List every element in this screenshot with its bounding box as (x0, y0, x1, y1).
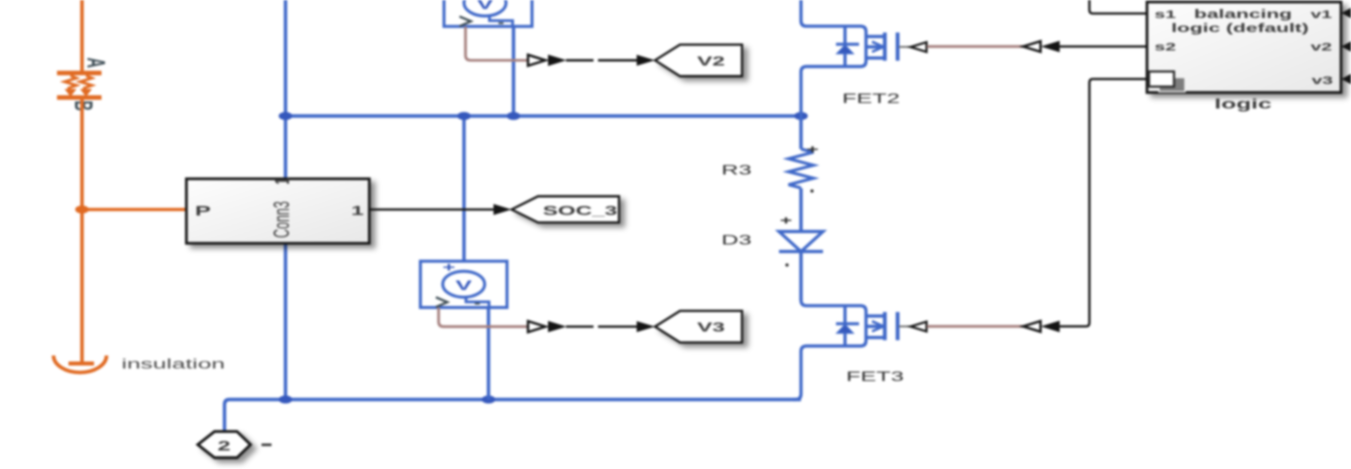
svg-text:v2: v2 (1311, 41, 1333, 53)
transistor FET2 (801, 0, 898, 116)
FET2 gate PS port triangle (911, 42, 927, 52)
svg-text:SOC_3: SOC_3 (543, 203, 618, 218)
svg-text:2: 2 (217, 439, 230, 454)
diode D3 (779, 232, 823, 252)
wire: blue from V2 sensor to bus (512, 26, 515, 116)
wire: orange vertical to ground (80, 98, 84, 364)
svg-text:V3: V3 (697, 320, 725, 335)
Simulink-PS converter s3 (1023, 321, 1041, 332)
FET3 gate PS port triangle (911, 322, 927, 332)
svg-text:v3: v3 (1312, 75, 1334, 87)
wire: blue drop to V3 sensor (462, 116, 465, 262)
port 2 hexagon (198, 432, 251, 458)
PS-Simulink converter V2 (528, 55, 546, 66)
wire: s2 from logic block (1060, 45, 1148, 47)
svg-text:logic: logic (1214, 97, 1271, 112)
resistor R3 (789, 149, 814, 188)
goto tag V3 (655, 311, 742, 343)
signal arrow s3 (1041, 321, 1060, 333)
wire: blue top bus (286, 114, 802, 117)
svg-text:FET2: FET2 (842, 92, 900, 107)
label minus (262, 443, 272, 446)
voltage sensor V3 (420, 260, 507, 307)
svg-text:balancing: balancing (1194, 7, 1292, 20)
wire: pink PS output of V2 sensor (466, 27, 529, 61)
svg-text:Conn3: Conn3 (269, 201, 294, 238)
wire: blue drop bus to R3 (799, 116, 802, 149)
signal arrow s2 (1041, 41, 1060, 53)
svg-text:1: 1 (272, 178, 294, 184)
svg-text:P: P (195, 204, 211, 219)
block Conn3 (186, 179, 369, 244)
voltage sensor V2 (top, clipped) (444, 0, 532, 26)
node junction on orange wire (75, 206, 89, 214)
svg-text:1: 1 (351, 203, 364, 218)
wire: orange insulation branch top (80, 0, 84, 73)
goto tag V2 (655, 45, 742, 77)
wire: s3 from logic block (down the side) (1060, 79, 1148, 326)
wire: orange branch to Conn3 P (82, 208, 186, 211)
wire: signal to V2 tag (566, 59, 637, 61)
Simulink-PS converter s2 (1023, 41, 1041, 52)
svg-text:s2: s2 (1155, 41, 1177, 53)
wire: blue vertical rail x=285 (284, 0, 287, 400)
svg-text:R3: R3 (721, 163, 751, 178)
ground (insulation reference) (54, 356, 107, 373)
svg-text:V: V (456, 278, 473, 293)
svg-text:FET3: FET3 (846, 370, 904, 385)
PS-Simulink converter V3 (528, 321, 546, 332)
wire: pink gate drive FET2 (927, 45, 1023, 48)
svg-text:s1: s1 (1155, 9, 1177, 21)
svg-text:D3: D3 (721, 233, 751, 248)
svg-text:v1: v1 (1311, 9, 1333, 21)
wire: blue from V3 sensor to bottom bus (487, 308, 490, 400)
wire: SOC_3 signal (371, 208, 495, 210)
wire: D3 to FET3 (799, 252, 802, 301)
svg-text:insulation: insulation (122, 356, 225, 371)
wire: pink gate drive FET3 (927, 325, 1023, 328)
svg-text:+: + (806, 143, 818, 156)
svg-text:logic (default): logic (default) (1171, 21, 1309, 34)
wire: pink PS output of V3 sensor (439, 308, 528, 327)
svg-text:V: V (477, 0, 494, 13)
signal arrow V3 (548, 321, 567, 332)
svg-text:+: + (780, 214, 792, 227)
transistor FET3 (793, 299, 898, 400)
goto tag SOC_3 (512, 196, 619, 222)
input arrowheads v1 v2 v3 (1342, 7, 1351, 19)
block logic (balancing logic) (1147, 2, 1341, 93)
svg-text:A: A (81, 58, 109, 69)
wire: blue bottom bus (225, 400, 802, 432)
wire: R3 to D3 (799, 188, 802, 231)
signal arrow V2 (548, 55, 567, 66)
variant badge (1149, 72, 1185, 92)
node dots on buses (279, 112, 808, 404)
resistor insulation-monitor (dual zigzag element) (57, 73, 102, 98)
wire: signal to V3 tag (566, 325, 637, 327)
svg-text:V2: V2 (697, 53, 725, 68)
wire: s1 to top (off-screen FET1) (1089, 0, 1147, 14)
